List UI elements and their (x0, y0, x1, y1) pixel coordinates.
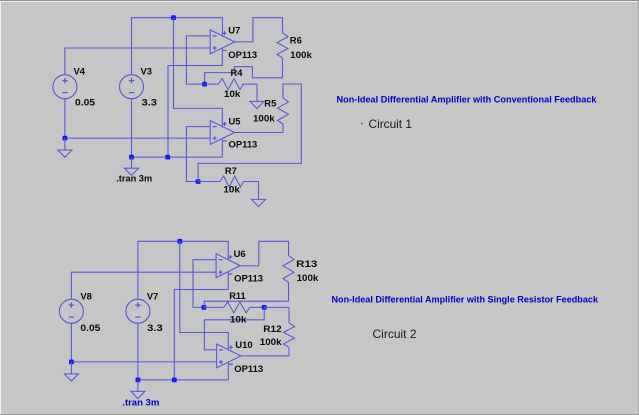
wire R11 right to node D (250, 306, 265, 308)
wire U10 out to R12 bottom (241, 347, 289, 356)
wire 3.3V branch to U10 V+ (180, 241, 229, 350)
wire V7 ground stub (137, 380, 139, 392)
svg-text:100k: 100k (290, 49, 313, 60)
wire node A to U7 -in (186, 36, 210, 84)
resistor R4 (218, 79, 243, 90)
window top edge (0, 0, 639, 1)
node V7 bottom junction (136, 378, 141, 383)
svg-text:R5: R5 (264, 98, 276, 109)
ground R4 (250, 101, 264, 108)
voltage source V3 (120, 75, 144, 99)
wire U6 -in loop (193, 260, 216, 308)
svg-text:0.05: 0.05 (75, 97, 95, 108)
op-amp U6 (216, 254, 240, 278)
svg-text:OP113: OP113 (228, 49, 257, 60)
wire R6 bottom to node A (205, 58, 283, 84)
resistor R6 (277, 33, 288, 58)
svg-text:U6: U6 (234, 248, 246, 259)
svg-text:100k: 100k (260, 336, 283, 347)
wire R4 right to ground (242, 84, 257, 101)
svg-text:100k: 100k (253, 113, 276, 124)
node V3 bottom junction (129, 155, 134, 160)
svg-text:OP113: OP113 (234, 273, 263, 284)
svg-text:3.3: 3.3 (147, 322, 163, 333)
ground V4 (58, 150, 72, 157)
svg-text:.tran 3m: .tran 3m (116, 172, 152, 183)
svg-text:Circuit 1: Circuit 1 (369, 117, 413, 131)
svg-text:.tran 3m: .tran 3m (122, 397, 159, 408)
window bottom edge (0, 414, 639, 415)
resistor R7 (220, 176, 244, 187)
wire V4 top to U7 +in (65, 48, 210, 75)
wire node C to R11 left (204, 306, 224, 308)
node 0V rail junction c2 (172, 378, 177, 383)
wire U6 V- to 0V rail c2 (174, 272, 228, 380)
wire U7 V- to 0V rail (168, 48, 222, 157)
wire R7 right to ground (244, 182, 259, 200)
svg-text:V3: V3 (141, 65, 152, 76)
node V4 bottom junction (63, 136, 68, 141)
node D junction (262, 305, 267, 310)
wire V8 bottom to U10 +in (71, 323, 216, 362)
svg-text:Non-Ideal Differential Amplifi: Non-Ideal Differential Amplifier with Si… (332, 295, 599, 306)
svg-text:U10: U10 (235, 339, 252, 350)
svg-text:U5: U5 (229, 115, 241, 126)
node 3.3V rail junction c2 (177, 239, 182, 244)
svg-text:V7: V7 (147, 290, 158, 301)
wire node A to R4 left (205, 83, 219, 85)
wire V4 bottom to U5 +in (65, 99, 210, 138)
svg-text:Circuit 2: Circuit 2 (373, 327, 417, 341)
resistor R13 (283, 255, 294, 282)
wire V4 ground stub (64, 138, 66, 150)
window right edge (638, 1, 639, 414)
svg-text:Non-Ideal Differential Amplifi: Non-Ideal Differential Amplifier with Co… (337, 95, 598, 106)
node A junction (202, 82, 207, 87)
wire V8 top to U6 +in (71, 272, 216, 299)
svg-text:R13: R13 (296, 258, 317, 269)
ground V3 (125, 168, 139, 175)
wire node C step to R13 bottom (204, 282, 288, 307)
node 3.3V rail junction (171, 15, 176, 20)
wire U6 out to R13 top (241, 241, 289, 266)
wire V3 ground stub (131, 157, 133, 168)
op-amp U7 (210, 30, 235, 54)
svg-text:100k: 100k (297, 272, 320, 283)
voltage source V7 (126, 299, 150, 323)
svg-text:3.3: 3.3 (142, 97, 158, 108)
svg-text:OP113: OP113 (234, 363, 263, 374)
wire node B to R5 top (198, 84, 301, 182)
svg-text:R7: R7 (225, 165, 237, 176)
node C junction (202, 305, 207, 310)
resistor R12 (284, 323, 295, 348)
svg-text:10k: 10k (224, 88, 241, 99)
svg-text:0.05: 0.05 (80, 322, 100, 333)
svg-text:10k: 10k (230, 313, 247, 324)
wire node B to R7 left (198, 181, 220, 183)
svg-text:V8: V8 (80, 290, 91, 301)
tiny dot before Circuit 1 (361, 123, 363, 125)
node V8 bottom junction (69, 360, 74, 365)
wire U5 out to R5 bottom (235, 124, 283, 133)
wire V3 bottom / 0V rail / U5 V- (132, 99, 223, 157)
node 0V rail junction (165, 155, 170, 160)
svg-text:R12: R12 (263, 323, 281, 334)
wire V7 top to U6 V+ rail (138, 241, 228, 299)
voltage source V8 (59, 299, 83, 323)
svg-text:OP113: OP113 (229, 138, 258, 149)
svg-text:U7: U7 (228, 25, 240, 36)
svg-text:R11: R11 (229, 290, 245, 301)
svg-text:R4: R4 (231, 67, 244, 78)
voltage source V4 (53, 75, 77, 99)
svg-text:10k: 10k (223, 183, 240, 194)
wire U7 out to R6 top (235, 18, 283, 42)
wire V8 ground stub (70, 362, 72, 374)
op-amp U5 (210, 121, 235, 145)
ground R7 (252, 199, 266, 206)
resistor R11 (224, 302, 250, 313)
wire 3.3V branch to U5 V+ (174, 18, 223, 128)
wire V3 top to U7 V+ rail (132, 18, 223, 75)
node B junction (196, 179, 201, 184)
op-amp U10 (217, 344, 241, 368)
svg-text:R6: R6 (290, 35, 302, 46)
svg-text:V4: V4 (74, 65, 86, 76)
wire V7 bottom / 0V rail / U10 V- (138, 323, 228, 380)
ground V8 (64, 374, 78, 381)
wire U5 -in loop (186, 127, 210, 182)
wire node D to U10 -in (204, 307, 264, 350)
resistor R5 (278, 98, 289, 124)
ground V7 (131, 391, 145, 398)
window left edge (0, 1, 1, 415)
wire node D to R12 top (264, 307, 289, 322)
